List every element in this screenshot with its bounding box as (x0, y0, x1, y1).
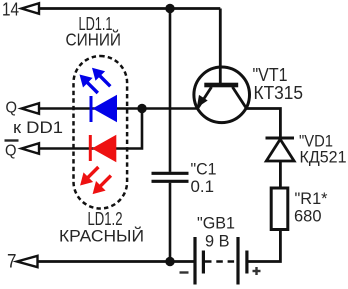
wire bottom rail from pin 7 to battery minus (36, 260, 194, 263)
LED HL1 blue emission arrow left (80, 75, 98, 94)
svg-text:"GB1: "GB1 (197, 214, 235, 233)
battery GB1 long plate right (236, 237, 239, 285)
resistor R1 body (271, 188, 288, 230)
svg-text:"R1*: "R1* (295, 189, 328, 208)
svg-text:КД521: КД521 (300, 148, 347, 167)
svg-text:680: 680 (294, 207, 322, 226)
diode VD1 cathode bar (266, 137, 295, 140)
LED HL1 blue triangle (93, 95, 118, 122)
terminal arrow Qbar (22, 143, 40, 154)
transistor VT1 circle (194, 67, 250, 123)
wire resistor to battery plus (248, 229, 280, 262)
LED HL2 red cathode bar (89, 135, 92, 161)
svg-text:КТ315: КТ315 (254, 82, 304, 103)
wire vertical drop to transistor base (219, 9, 222, 85)
transistor VT1 emitter with arrow (197, 87, 212, 108)
node junction dot bottom rail (165, 257, 174, 266)
transistor VT1 base bar (204, 83, 238, 88)
battery GB1 short plate left (202, 251, 205, 274)
svg-text:"C1: "C1 (191, 160, 217, 179)
battery plus sign (253, 267, 261, 275)
svg-text:КРАСНЫЙ: КРАСНЫЙ (59, 227, 144, 246)
LED assembly dashed stadium outline (74, 56, 128, 209)
wire L link from Q row down to red LED row (116, 109, 142, 149)
svg-text:0.1: 0.1 (191, 177, 215, 196)
wire Qbar row (38, 147, 116, 150)
diode VD1 triangle (266, 139, 294, 161)
svg-text:14: 14 (2, 0, 19, 20)
wire collector to diode (246, 109, 281, 139)
LED HL2 red emission arrow left (80, 167, 98, 186)
svg-text:Q: Q (5, 143, 17, 160)
svg-text:СИНИЙ: СИНИЙ (66, 29, 122, 50)
terminal arrow pin 7 (17, 256, 38, 267)
pin label Qbar overbar (5, 139, 19, 141)
LED HL2 red emission arrow right (93, 176, 111, 195)
LED HL1 blue emission arrow right (92, 68, 110, 87)
LED HL1 blue cathode bar (90, 96, 93, 122)
battery minus sign (180, 271, 189, 273)
wire C1 branch upper segment (169, 9, 172, 172)
svg-text:9 В: 9 В (205, 232, 230, 251)
battery GB1 short plate right (245, 251, 248, 274)
node junction dot Q row (137, 104, 146, 113)
svg-text:к DD1: к DD1 (13, 119, 63, 137)
battery GB1 dashed cell link (205, 260, 236, 263)
node junction dot top rail (165, 4, 174, 13)
svg-text:Q: Q (6, 100, 18, 117)
wire C1 branch lower segment (169, 183, 172, 262)
wire diode to resistor (279, 161, 282, 189)
terminal arrow pin 14 (22, 3, 40, 14)
wire Q row to emitter (38, 107, 198, 110)
capacitor C1 bottom plate (152, 180, 189, 183)
capacitor C1 top plate (152, 172, 189, 175)
LED HL2 red triangle (92, 135, 117, 162)
transistor VT1 collector lead (233, 87, 247, 108)
battery GB1 long plate left (193, 237, 196, 285)
terminal arrow Q (22, 103, 40, 114)
wire top rail from pin 14 to collector corner (36, 7, 220, 10)
